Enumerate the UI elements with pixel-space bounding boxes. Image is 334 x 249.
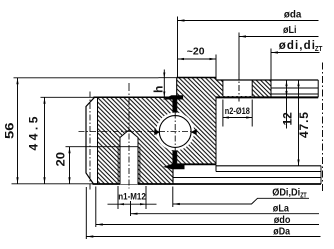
svg-text:ZT: ZT: [300, 193, 307, 200]
svg-text:n2-Ø18: n2-Ø18: [225, 106, 250, 117]
svg-text:n1-M12: n1-M12: [118, 192, 146, 203]
svg-text:øda: øda: [284, 8, 302, 20]
svg-text:12: 12: [281, 112, 295, 126]
svg-text:47.5: 47.5: [297, 112, 311, 138]
svg-text:56: 56: [3, 122, 17, 139]
svg-text:ØDi,Di: ØDi,Di: [272, 186, 300, 198]
svg-text:20: 20: [54, 152, 68, 167]
svg-text:h: h: [152, 86, 166, 93]
svg-text:ødi,di: ødi,di: [279, 40, 315, 52]
svg-text:ødo: ødo: [274, 214, 291, 226]
svg-text:~20: ~20: [187, 46, 205, 58]
svg-text:øDa: øDa: [273, 225, 290, 237]
svg-text:øLi: øLi: [283, 24, 297, 36]
svg-text:ZT: ZT: [315, 44, 323, 53]
svg-text:øLa: øLa: [273, 202, 289, 214]
